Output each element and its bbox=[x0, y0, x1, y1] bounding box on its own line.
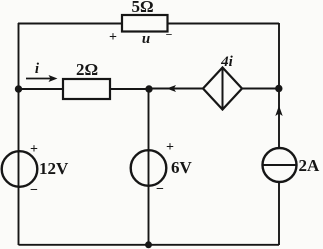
wire: from node B to dependent source with arrow bbox=[149, 88, 203, 90]
voltage source 12V bbox=[2, 151, 38, 187]
svg-text:−: − bbox=[166, 28, 173, 42]
wire: middle vertical (6V branch) bbox=[148, 89, 150, 245]
voltage source 6V bbox=[131, 150, 167, 186]
svg-text:+: + bbox=[166, 140, 174, 155]
current arrow for i bbox=[26, 75, 58, 82]
dependent current source 4i (diamond) bbox=[203, 68, 242, 110]
svg-text:4i: 4i bbox=[220, 54, 234, 70]
current direction arrowhead (up) on right rail bbox=[275, 106, 282, 117]
arrowhead pointing left on 4i wire bbox=[167, 85, 177, 92]
wire: bottom horizontal bbox=[19, 244, 280, 246]
current source 2A bbox=[263, 148, 297, 182]
svg-text:12V: 12V bbox=[39, 159, 69, 178]
svg-text:−: − bbox=[156, 182, 164, 197]
wire: from diamond to right rail bbox=[242, 88, 279, 90]
wire: left vertical bbox=[18, 23, 20, 245]
node C (bottom junction) bbox=[145, 241, 152, 248]
svg-text:2Ω: 2Ω bbox=[76, 60, 98, 79]
wire: top-right horizontal segment bbox=[168, 23, 280, 25]
svg-text:u: u bbox=[142, 31, 150, 47]
wire: right vertical upper bbox=[278, 23, 280, 149]
svg-text:+: + bbox=[109, 30, 117, 45]
wire: middle horizontal right of 2Ω bbox=[110, 88, 149, 90]
wire: right vertical lower bbox=[278, 182, 280, 245]
resistor 5Ω (top) bbox=[122, 15, 168, 32]
wire: middle horizontal left of 2Ω bbox=[19, 88, 64, 90]
svg-text:5Ω: 5Ω bbox=[131, 0, 153, 16]
svg-text:+: + bbox=[30, 142, 38, 157]
resistor 2Ω bbox=[63, 79, 110, 99]
svg-text:−: − bbox=[30, 183, 38, 198]
wire: top-left horizontal segment bbox=[18, 23, 122, 25]
svg-text:6V: 6V bbox=[171, 158, 193, 177]
node A (left junction) bbox=[15, 85, 22, 92]
node B (middle junction) bbox=[145, 85, 152, 92]
node D (right junction) bbox=[275, 85, 282, 92]
svg-text:2A: 2A bbox=[299, 156, 321, 175]
